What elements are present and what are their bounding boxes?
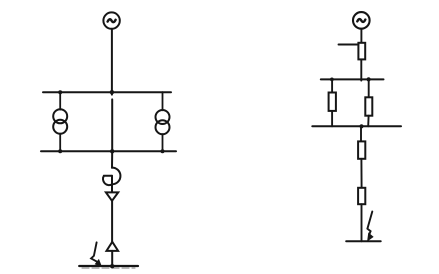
impedance Z2	[329, 93, 336, 111]
wire stub at Z1	[339, 44, 359, 46]
bus B	[41, 150, 176, 152]
wire Z4 to Z5	[360, 159, 362, 188]
node junction bus B / T1	[58, 149, 62, 153]
node junction bus A / T1	[58, 90, 62, 94]
impedance Z1	[358, 43, 365, 60]
wire T1 to bus B	[59, 134, 61, 152]
generator G1	[103, 12, 119, 28]
wire G2 to impedance Z1	[360, 29, 362, 43]
wire Z5 to ground	[361, 204, 363, 241]
wire bus B to reactor L1	[111, 151, 113, 167]
wire bus A to T1	[59, 92, 61, 109]
ground line (left)	[79, 265, 138, 267]
lightning strike arrow (left)	[91, 242, 101, 266]
wire Z3 to bus D	[367, 116, 369, 127]
spark gap electrode F1 (down triangle)	[106, 192, 118, 200]
spark gap electrode F2 (up triangle)	[107, 242, 119, 251]
impedance Z5	[358, 188, 365, 204]
wire gap F1 to gap F2	[111, 201, 113, 242]
wire Z1 to bus C	[360, 59, 362, 80]
wire feeder bus A to bus B	[111, 99, 113, 151]
transformer T1	[53, 109, 67, 133]
ground line (right)	[346, 240, 381, 242]
node junction bus D / feeder	[359, 124, 363, 128]
wire bus A to T2	[162, 92, 164, 110]
node junction bus A / feeder	[110, 90, 114, 94]
bus A	[43, 91, 171, 93]
node junction bus B / T2	[161, 149, 165, 153]
node junction ground / lead	[110, 264, 114, 268]
bus C	[321, 78, 384, 80]
transformer T2	[156, 110, 170, 134]
wire bus C to Z2	[331, 79, 333, 92]
node junction bus B / feeder	[110, 149, 114, 153]
wire bus C to Z3	[368, 79, 370, 97]
wire reactor L1 to gap F1	[111, 176, 113, 193]
node junction bus C / Z3	[367, 77, 371, 81]
wire G1 to bus A	[111, 29, 113, 95]
wire Z2 to bus D	[331, 111, 333, 126]
wire T2 to bus B	[162, 134, 164, 151]
wire gap F2 to ground	[111, 251, 113, 266]
impedance Z4	[358, 141, 365, 158]
node junction bus C / Z2	[330, 78, 334, 82]
bus D	[312, 125, 401, 127]
wire bus D to Z4	[360, 126, 362, 141]
generator G2	[353, 12, 370, 29]
impedance Z3	[365, 97, 372, 115]
lightning strike arrow (right)	[367, 212, 373, 241]
reactor L1	[103, 168, 120, 186]
